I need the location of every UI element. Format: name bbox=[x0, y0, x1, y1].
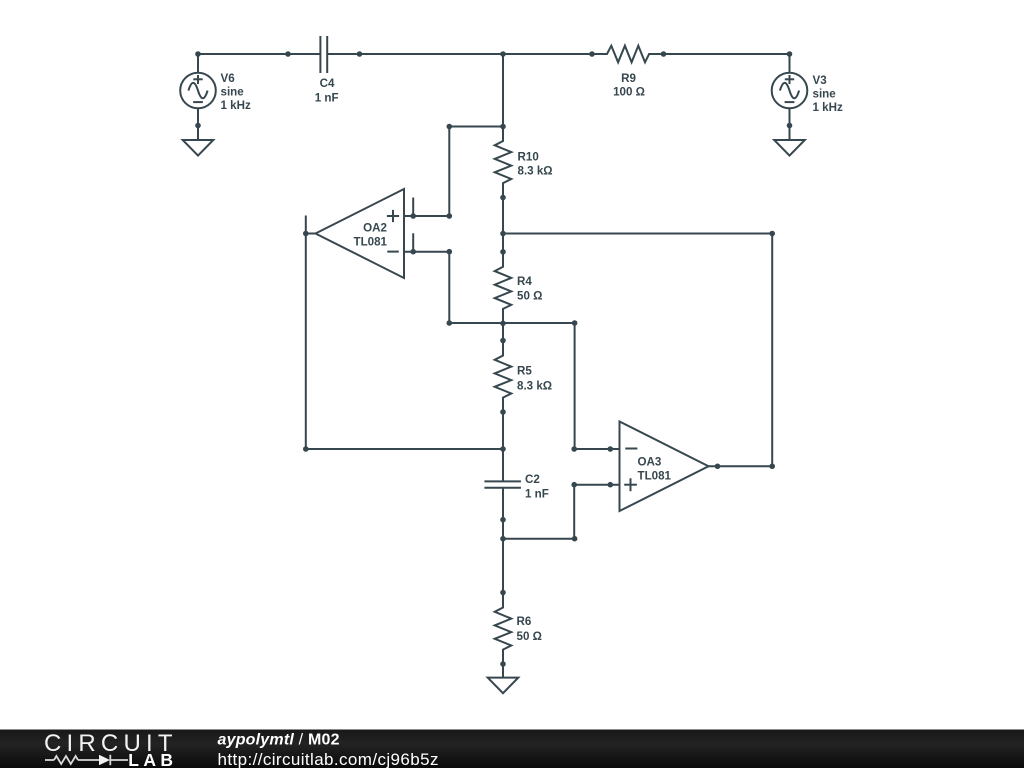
ground below R6 bbox=[488, 678, 519, 694]
footer bar bbox=[0, 730, 1024, 768]
wire mid node to right loop bbox=[503, 234, 772, 467]
wire OA2 minus pin extension bbox=[404, 251, 449, 253]
svg-text:50 Ω: 50 Ω bbox=[517, 630, 542, 643]
svg-text:C4: C4 bbox=[320, 77, 335, 90]
junction mid node to right loop bbox=[500, 231, 506, 237]
svg-text:OA3: OA3 bbox=[638, 456, 662, 469]
R4 value labels bbox=[517, 275, 542, 303]
svg-text:sine: sine bbox=[813, 88, 837, 101]
C4 value labels bbox=[315, 77, 339, 105]
svg-text:V3: V3 bbox=[813, 74, 828, 87]
svg-text:1 kHz: 1 kHz bbox=[221, 99, 251, 112]
ground below V3 bbox=[774, 140, 805, 156]
wire OA2 plus pin tick bbox=[412, 198, 414, 217]
junction R9 left terminal bbox=[589, 51, 595, 57]
junction right loop bottom corner bbox=[769, 463, 775, 469]
svg-text:R10: R10 bbox=[518, 151, 539, 164]
junction OA2 minus pin bbox=[410, 249, 416, 255]
junction R6 top terminal bbox=[500, 590, 506, 596]
wire R6 to ground bbox=[502, 664, 504, 678]
svg-text:R5: R5 bbox=[517, 365, 532, 378]
junction right loop top corner bbox=[769, 231, 775, 237]
svg-text:50 Ω: 50 Ω bbox=[517, 290, 542, 303]
voltage source V3 bbox=[772, 54, 808, 140]
wire R10 to R4 bbox=[502, 198, 504, 252]
svg-text:OA2: OA2 bbox=[363, 222, 387, 235]
wire OA2 minus down to bottom rail bbox=[449, 252, 574, 323]
junction R5 top terminal bbox=[500, 338, 506, 344]
junction OA2 output bbox=[303, 231, 309, 237]
junction OA3 plus corner bbox=[571, 482, 577, 488]
wire R4 to R5 bbox=[502, 323, 504, 340]
CircuitLab logo resistor-diode icon bbox=[45, 755, 128, 765]
wire OA3 plus down to C2 bottom rail bbox=[503, 485, 574, 539]
wire top rail down to R10 bbox=[502, 54, 504, 127]
R9 value labels bbox=[613, 72, 645, 99]
junction R9 right terminal bbox=[661, 51, 667, 57]
OA2 labels bbox=[353, 222, 387, 249]
junction R4 bottom node bbox=[500, 321, 506, 327]
svg-text:sine: sine bbox=[221, 86, 245, 99]
wire OA2 output tick bbox=[305, 216, 307, 234]
ground below V6 bbox=[183, 140, 214, 156]
wire top rail V6 to C4 bbox=[198, 53, 288, 55]
svg-text:TL081: TL081 bbox=[353, 236, 387, 249]
svg-text:1 nF: 1 nF bbox=[315, 92, 339, 105]
voltage source V6 bbox=[180, 54, 216, 140]
junction feedback corner bbox=[303, 446, 309, 452]
junction C2 bottom terminal bbox=[500, 517, 506, 523]
junction V3 top bbox=[787, 51, 793, 57]
svg-text:C2: C2 bbox=[525, 473, 540, 486]
junction R10 bottom terminal bbox=[500, 195, 506, 201]
svg-text:1 kHz: 1 kHz bbox=[813, 101, 843, 114]
resistor R6 bbox=[495, 593, 512, 665]
wire R10 top to OA2 noninverting branch bbox=[449, 127, 503, 217]
wire bottom rail down to OA3 inverting input bbox=[575, 323, 620, 449]
R10 value labels bbox=[518, 151, 553, 178]
junction C4 right terminal bbox=[357, 51, 363, 57]
junction C2 rail right corner bbox=[572, 536, 578, 542]
svg-text:R9: R9 bbox=[621, 72, 636, 85]
junction V3 bottom bbox=[787, 123, 793, 129]
wire OA3 plus pin extension bbox=[574, 484, 619, 486]
junction V6 top / top rail bbox=[195, 51, 201, 57]
svg-text:R6: R6 bbox=[517, 615, 532, 628]
junction R4 top terminal bbox=[500, 249, 506, 255]
wire C2 to R6 bbox=[502, 520, 504, 593]
C2 value labels bbox=[525, 473, 549, 501]
op-amp OA3 bbox=[620, 422, 709, 512]
capacitor C4 bbox=[288, 36, 360, 73]
junction OA2 minus corner bbox=[447, 249, 453, 255]
junction OA2 plus pin bbox=[410, 213, 416, 219]
resistor R10 bbox=[495, 126, 512, 198]
wire R5 to C2 bbox=[502, 412, 504, 449]
V3 value labels bbox=[813, 74, 843, 114]
resistor R4 bbox=[495, 252, 512, 323]
wire C4 to R9 bbox=[360, 53, 593, 55]
svg-text:1 nF: 1 nF bbox=[525, 488, 549, 501]
junction top rail to R10 bbox=[500, 51, 506, 57]
resistor R9 bbox=[592, 46, 664, 63]
junction OA3 output bbox=[715, 463, 721, 469]
R5 value labels bbox=[517, 365, 552, 393]
svg-text:http://circuitlab.com/cj96b5z: http://circuitlab.com/cj96b5z bbox=[218, 750, 439, 768]
junction bottom rail right corner bbox=[572, 320, 578, 326]
svg-text:TL081: TL081 bbox=[638, 470, 672, 483]
svg-text:8.3 kΩ: 8.3 kΩ bbox=[517, 380, 552, 393]
junction V6 bottom bbox=[195, 123, 201, 129]
junction wire corner to OA2 plus bbox=[447, 124, 453, 130]
junction OA3 plus pin bbox=[608, 482, 614, 488]
op-amp OA2 bbox=[306, 189, 404, 278]
junction OA2 plus node bbox=[447, 213, 453, 219]
junction R5 bottom terminal bbox=[500, 409, 506, 415]
junction C2 bottom node bbox=[500, 536, 506, 542]
wire OA2 output feedback left side bbox=[306, 234, 503, 450]
junction R10 top node bbox=[500, 124, 506, 130]
capacitor C2 bbox=[484, 449, 521, 520]
junction C2 top node bbox=[500, 446, 506, 452]
junction OA3 minus corner bbox=[571, 446, 577, 452]
svg-text:100 Ω: 100 Ω bbox=[613, 86, 645, 99]
OA3 labels bbox=[638, 456, 672, 483]
svg-text:8.3 kΩ: 8.3 kΩ bbox=[518, 165, 553, 178]
R6 value labels bbox=[517, 615, 542, 643]
junction R6 bottom terminal bbox=[500, 661, 506, 667]
svg-text:LAB: LAB bbox=[128, 750, 177, 768]
junction C4 left terminal bbox=[285, 51, 291, 57]
junction bottom rail left corner bbox=[447, 320, 453, 326]
svg-text:aypolymtl / M02: aypolymtl / M02 bbox=[218, 732, 340, 749]
resistor R5 bbox=[495, 341, 512, 413]
junction OA3 minus pin bbox=[608, 446, 614, 452]
svg-text:R4: R4 bbox=[517, 275, 532, 288]
wire OA3 output to right loop bbox=[709, 465, 773, 467]
wire OA2 minus pin tick bbox=[412, 233, 414, 251]
V6 value labels bbox=[221, 72, 251, 112]
wire OA2 plus pin extension bbox=[404, 215, 449, 217]
wire R9 to V3 bbox=[664, 53, 790, 55]
svg-text:V6: V6 bbox=[221, 72, 236, 85]
